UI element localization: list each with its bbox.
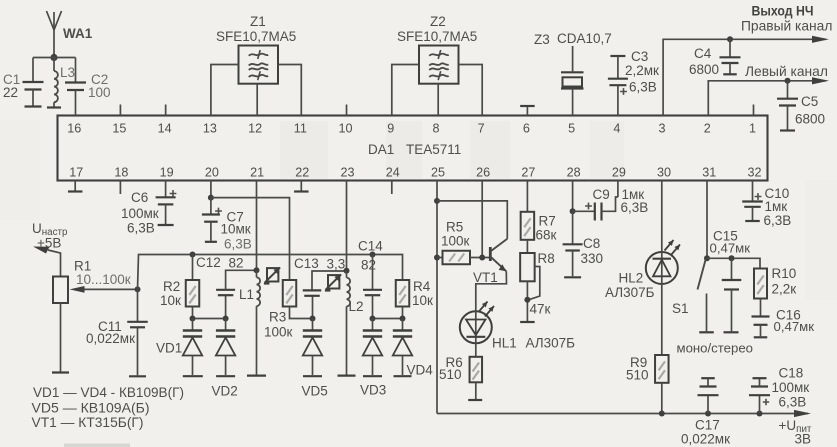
svg-text:DA1: DA1 [368,142,394,157]
node R8 wiper junction [524,297,530,303]
svg-text:510: 510 [626,368,649,383]
ground (L2) [338,375,356,377]
svg-text:0,022мк: 0,022мк [86,331,135,346]
svg-text:VD5 — КВ109А(Б): VD5 — КВ109А(Б) [32,401,150,416]
svg-text:47к: 47к [530,302,551,317]
wire pin 28 down [572,181,574,212]
label C6 [121,190,159,236]
label C11 [86,319,135,346]
svg-text:10к: 10к [160,293,181,308]
node collector tap [434,198,440,204]
label C5 6800 [795,94,825,127]
svg-text:VD1 — VD4 - КВ109В(Г): VD1 — VD4 - КВ109В(Г) [33,385,184,400]
svg-text:C4: C4 [694,46,712,61]
svg-text:7: 7 [478,121,485,135]
wire R2 bottom [192,307,194,319]
svg-text:0,47мк: 0,47мк [774,319,815,334]
svg-text:SFE10,7MA5: SFE10,7MA5 [216,29,296,44]
svg-text:82: 82 [361,258,376,273]
node wiper junction [135,286,141,292]
wire pin 30 down [661,181,663,253]
wire pin 23 down [346,181,348,271]
wire R9 bottom [661,383,663,414]
node C15 top [729,255,735,261]
pin 1 stub [753,105,755,116]
wire varactor bus right [373,318,403,320]
label R2 10к [160,279,181,308]
svg-text:0,47мк: 0,47мк [710,241,751,256]
trimmer arrow L2 [325,274,341,290]
label R3 100к [264,310,293,340]
node R2 top [190,252,196,258]
wire pin 29 down [617,181,619,198]
pin 14 stub [165,105,167,116]
svg-text:АЛ307Б: АЛ307Б [526,336,576,351]
svg-text:10: 10 [339,121,353,135]
wire pin 21 down [256,181,258,271]
svg-text:VT1: VT1 [473,270,498,285]
ground (VD4) [394,375,412,377]
ground (C7) [205,241,217,243]
label R9 510 [626,355,649,383]
ground (C4) [723,73,737,75]
svg-text:18: 18 [114,165,128,179]
svg-text:8: 8 [432,121,439,135]
pin 17 stub [74,181,76,192]
pin numbers 16-1 (top row) [67,121,756,135]
antenna WA1 [47,11,62,58]
label C15 0,47мк [710,229,751,256]
arrow +5V supply [33,247,50,254]
label R6 510 [439,355,463,382]
ground (VD3) [363,375,382,377]
wire S1 rail [707,258,760,268]
node L1 top [254,267,260,273]
label C10 [764,186,792,228]
svg-text:6,3В: 6,3В [224,237,252,252]
ground (VD1) [183,375,203,377]
svg-text:20: 20 [205,165,219,179]
inductor L2 [347,271,351,375]
svg-text:4: 4 [613,121,620,135]
ground (C18 top) [753,377,767,379]
inductor L1 [257,270,261,374]
svg-text:Выход НЧ: Выход НЧ [752,4,814,19]
svg-text:14: 14 [158,121,172,135]
svg-text:6800: 6800 [795,112,825,127]
wire tuning bus [138,255,403,290]
svg-text:HL2: HL2 [619,271,644,286]
arrow +U supply [794,410,811,417]
svg-text:Левый канал: Левый канал [745,64,828,79]
node C4 junction [727,36,733,42]
trimmer arrow L1 [264,267,280,283]
resistor R2 [186,280,200,307]
capacitor C11 [127,289,148,375]
svg-text:510: 510 [439,367,462,382]
svg-text:16: 16 [67,121,81,135]
ground (C16) [754,336,768,338]
pin 24 stub [391,181,393,195]
wire HL2 to R9 [661,284,663,355]
svg-text:27: 27 [521,165,535,179]
label C4 6800 [689,46,719,77]
wire left channel output [708,81,826,116]
filter Z1 SFE10,7MA5 box [239,46,279,84]
svg-text:6,3В: 6,3В [629,80,657,95]
svg-text:C12: C12 [196,255,221,270]
label C2 100 [88,72,111,100]
svg-text:22: 22 [295,165,309,179]
capacitor C7 [202,198,222,241]
svg-text:HL1: HL1 [492,336,517,351]
label R5 100к [441,220,470,249]
capacitor C2 [65,58,86,116]
wire +U supply bus [437,413,808,415]
svg-text:15: 15 [112,121,126,135]
svg-text:Z3: Z3 [534,32,550,47]
svg-text:330: 330 [581,251,604,266]
ground (C5) [780,129,795,131]
wire R1 to +5V arrow [48,250,61,277]
resistor R3 [283,280,297,307]
wiper arrow R1 [70,286,138,293]
svg-text:3,3: 3,3 [327,257,346,272]
capacitor C14 [363,255,382,319]
wire antenna top rail [33,57,76,59]
svg-text:30: 30 [657,165,671,179]
label R1 [74,259,131,288]
svg-text:25: 25 [431,165,445,179]
capacitor C18 [749,379,770,414]
capacitor C13 [303,271,347,319]
svg-text:21: 21 [250,165,264,179]
node VD1 top [190,316,196,322]
svg-text:C18: C18 [779,366,804,381]
ground (S1) [699,331,714,333]
svg-text:моно/стерео: моно/стерео [677,341,754,356]
pin 18 stub [119,181,121,195]
varactor VD5 [303,319,322,376]
label C3 [625,49,659,95]
svg-text:АЛ307Б: АЛ307Б [605,285,655,300]
svg-text:R3: R3 [269,310,286,325]
svg-text:12: 12 [248,121,262,135]
svg-text:Правый канал: Правый канал [741,19,832,34]
svg-text:2,2к: 2,2к [772,282,797,297]
pin 6 stub [526,106,528,116]
svg-text:L2: L2 [349,299,364,314]
svg-text:28: 28 [567,165,581,179]
node R9 bus junction [659,411,665,417]
node VD4 top [400,316,406,322]
svg-text:3В: 3В [795,432,812,447]
capacitor C6 [156,181,177,225]
node VD5 top [310,316,316,322]
svg-text:0,022мк: 0,022мк [681,432,730,447]
wire pin 20 down [210,181,212,198]
svg-text:S1: S1 [672,301,689,316]
label C13 3,3 [294,256,345,272]
svg-text:100мк: 100мк [772,380,810,395]
ground (R8) [520,321,535,323]
ground (C1) [25,105,42,107]
label R4 10к [412,279,433,308]
wire Z1 centre to pin 12 [256,84,258,116]
svg-text:10...100к: 10...100к [76,272,131,287]
wire pin 26 down [481,181,483,258]
svg-text:VD1: VD1 [156,341,182,356]
label C18 100мк 6,3В [772,366,810,410]
node S1 junction [704,255,710,261]
wire pin 20 to R3 [211,198,290,280]
ground (pin 6) [520,105,535,107]
capacitor C8 [563,211,583,276]
svg-text:26: 26 [476,165,490,179]
capacitor C15 [722,258,742,331]
IC label DA1 TEA5711 [368,142,461,157]
wire pin 31 down [706,181,708,259]
capacitor C10 [742,193,763,220]
varactor VD1 [183,319,202,376]
node C9 junction [570,208,576,214]
node C14 top [370,252,376,258]
ground (C17 top) [701,377,715,379]
ground (pin 22) [294,190,309,192]
svg-text:6,3В: 6,3В [127,221,155,236]
svg-text:22: 22 [3,85,18,100]
varactor VD3 [363,319,382,376]
ground (C6) [158,224,174,226]
varactor VD4 [393,319,412,376]
pin 10 stub [346,105,348,116]
svg-text:1мк: 1мк [765,199,788,214]
svg-text:R8: R8 [538,251,555,266]
svg-text:C14: C14 [358,239,383,254]
svg-text:C6: C6 [131,190,148,205]
svg-text:VD2: VD2 [212,384,238,399]
wire R1 bottom [60,303,62,372]
ground (VD2) [216,375,235,377]
svg-text:6,3В: 6,3В [764,213,792,228]
label R10 2,2к [772,266,797,297]
svg-text:SFE10,7MA5: SFE10,7MA5 [397,29,477,44]
svg-text:C13: C13 [294,256,319,271]
wire R5 to base [470,257,489,259]
node R5 tap [434,255,440,261]
wire R8 bottom [526,281,528,321]
wire pin 32 down [752,181,754,201]
capacitor C4 [720,39,741,73]
node antenna junction [50,54,57,61]
svg-text:3: 3 [659,121,666,135]
svg-text:31: 31 [702,165,716,179]
pin 15 stub [119,105,121,116]
switch S1 [698,260,707,331]
LED HL1 [460,302,494,344]
label HL2 АЛ307Б [605,271,655,301]
ground (C11) [129,375,146,377]
svg-text:9: 9 [387,121,394,135]
capacitor C1 [23,58,44,106]
wire R4 bottom [402,307,404,319]
svg-text:Z2: Z2 [430,14,446,29]
node L2 top [344,268,350,274]
svg-text:6,3В: 6,3В [779,395,807,410]
op-amp U1 / IC DA1 TEA5711 body [58,116,768,181]
svg-text:R4: R4 [413,279,431,294]
wire Z1 left arm to pin 13 [211,65,239,116]
label C16 0,47мк [774,308,815,335]
label C7 [221,210,252,252]
svg-text:C8: C8 [583,236,600,251]
svg-text:24: 24 [386,165,400,179]
resistor R9 [655,355,669,383]
pin numbers 17-32 (bottom row) [69,165,761,179]
svg-text:C17: C17 [695,418,720,433]
svg-text:23: 23 [341,165,355,179]
wire R2 top [192,255,194,281]
label C1 22 [3,72,20,100]
svg-text:R10: R10 [772,266,797,281]
wire R5 left lead [437,257,443,259]
svg-text:82: 82 [229,256,244,271]
svg-text:C9: C9 [593,187,610,202]
label C12 82 [196,255,244,271]
svg-text:C3: C3 [631,49,648,64]
node VD3 top [370,316,376,322]
svg-text:11: 11 [294,121,307,135]
resistor R6 [470,343,483,399]
wire varactor bus left [193,318,226,320]
label C14 82 [358,239,383,273]
svg-text:WA1: WA1 [63,26,93,41]
svg-text:29: 29 [612,165,626,179]
svg-text:6800: 6800 [689,62,719,77]
resistor R10 [754,269,767,299]
svg-text:Z1: Z1 [250,14,266,29]
svg-text:L1: L1 [239,287,254,302]
ground (R1) [52,371,69,373]
svg-text:100мк: 100мк [121,206,159,221]
svg-text:VD4: VD4 [407,363,434,378]
ground (L1) [247,375,266,377]
ground (C3 top) [610,55,625,57]
svg-text:R5: R5 [446,220,463,235]
varactor VD2 [216,319,235,376]
capacitor C9 [573,197,618,221]
capacitor C12 [216,270,256,318]
label HL1 АЛ307Б [492,336,575,351]
wire pin 25 rail [436,181,438,414]
ground (R6) [468,399,482,401]
ground (C8) [564,276,581,278]
inductor L3 [54,58,58,107]
label C9 [593,187,649,215]
capacitor C3 [608,56,628,116]
wire Z2 centre to pin 8 [437,84,439,116]
svg-text:6: 6 [523,121,530,135]
node C18 bus junction [757,411,763,417]
svg-text:13: 13 [203,121,217,135]
capacitor C17 [698,379,719,414]
trimmer R8 [520,253,540,300]
svg-text:R2: R2 [163,279,180,294]
wire right channel output [663,39,826,115]
wire R3 bottom [290,307,313,319]
wire Z2 left arm to pin 9 [392,65,419,116]
ground (L3) [47,106,61,108]
svg-text:2: 2 [704,121,711,135]
wire R7-R8 [526,240,528,253]
pin 22 stub [300,181,302,192]
svg-text:32: 32 [747,165,761,179]
wire Z1 right arm to pin 11 [278,65,301,116]
svg-text:6,3В: 6,3В [621,200,649,215]
node pin 20 junction [208,195,214,201]
svg-text:17: 17 [69,165,83,179]
arrow left channel [812,77,829,84]
wire pin 27 down [526,181,528,212]
label R7 68к [536,214,557,243]
LED HL2 [646,240,680,284]
svg-text:2,2мк: 2,2мк [625,63,659,78]
node C17 bus junction [705,411,711,417]
svg-text:C5: C5 [801,94,818,109]
node VD2 top [223,316,229,322]
capacitor C5 [777,81,798,130]
svg-text:L3: L3 [60,65,75,80]
resistor R5 [443,251,471,265]
svg-text:19: 19 [160,165,174,179]
svg-text:VT1 — КТ315Б(Г): VT1 — КТ315Б(Г) [32,415,144,430]
svg-text:5: 5 [568,121,575,135]
resistor R1 [53,277,68,304]
svg-text:VD5: VD5 [302,384,328,399]
arrow right channel [812,36,829,43]
node base junction [479,255,485,261]
discriminator Z3 CDA10,7 [561,46,584,116]
label C17 0,022мк [681,418,730,447]
svg-text:10мк: 10мк [221,222,251,237]
label C8 330 [581,236,604,266]
ground (VD5) [303,375,322,377]
svg-text:68к: 68к [536,228,557,243]
wire collector feed [437,201,507,239]
svg-text:10к: 10к [412,293,433,308]
filter Z2 SFE10,7MA5 box [419,46,459,84]
svg-text:R7: R7 [539,214,556,229]
svg-text:1: 1 [749,121,756,135]
ground (pin 17) [68,190,83,192]
svg-text:TEA5711: TEA5711 [406,142,461,157]
resistor R7 [521,212,535,240]
svg-text:100: 100 [88,85,111,100]
svg-text:VD3: VD3 [360,383,386,398]
ground (C15) [724,331,739,333]
node C5 junction [785,78,791,84]
ground (C10) [745,220,760,222]
transistor VT1 [476,239,508,311]
resistor R4 [396,280,410,307]
svg-text:100к: 100к [441,234,470,249]
capacitor C16 [752,299,770,337]
svg-text:CDA10,7: CDA10,7 [557,31,612,46]
svg-text:100к: 100к [264,325,293,340]
wire Z2 right arm to pin 7 [459,65,483,116]
